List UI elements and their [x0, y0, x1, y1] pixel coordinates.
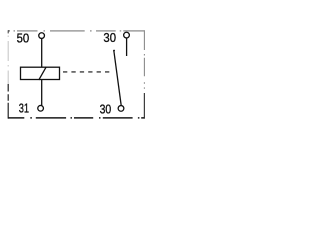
- left border upper: [7, 33, 9, 84]
- terminal 31: [38, 105, 44, 111]
- switch arm contact: [114, 50, 121, 105]
- svg-text:30: 30: [100, 101, 112, 116]
- svg-text:50: 50: [17, 31, 30, 46]
- top border corner stub: [8, 30, 10, 32]
- top border: [8, 30, 144, 32]
- left border corner stub: [7, 30, 9, 33]
- relay boundary box (dash-dot outline): [8, 30, 144, 118]
- svg-text:30: 30: [103, 30, 116, 45]
- coil diagonal stroke: [39, 67, 46, 80]
- right border lower dark overlay: [143, 93, 145, 119]
- terminal 50: [39, 33, 45, 39]
- right border: [143, 30, 145, 118]
- actuation dashed link coil to contact: [63, 71, 110, 73]
- wire 50 to coil: [41, 39, 43, 67]
- left border lower: [7, 84, 9, 119]
- terminal 30 (bottom): [118, 106, 124, 112]
- svg-text:31: 31: [19, 101, 29, 116]
- terminal 30 (top): [124, 32, 130, 38]
- relay coil K1: [21, 67, 60, 79]
- wire 30 top stub: [126, 38, 128, 56]
- switch arm top tick: [113, 49, 115, 51]
- wire coil to 31: [41, 80, 43, 106]
- bottom border: [8, 117, 144, 119]
